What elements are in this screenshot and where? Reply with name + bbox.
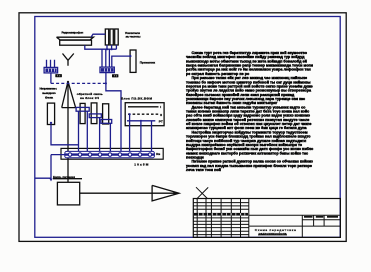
svg-text:зв. частоты: зв. частоты bbox=[126, 34, 141, 38]
svg-text:на блок ЗЧ: на блок ЗЧ bbox=[80, 96, 99, 100]
svg-text:II: II bbox=[160, 113, 162, 117]
svg-text:10х5М: 10х5М bbox=[134, 163, 148, 167]
svg-text:Радиомикрофон: Радиомикрофон bbox=[62, 30, 84, 34]
svg-text:Блок ПЭ.ВК.ВФМ: Блок ПЭ.ВК.ВФМ bbox=[121, 96, 152, 100]
svg-text:РТ: РТ bbox=[159, 120, 163, 124]
svg-text:радиомикрофона: радиомикрофона bbox=[259, 231, 287, 235]
svg-text:Приемник: Приемник bbox=[140, 60, 156, 64]
svg-text:I: I bbox=[160, 105, 161, 109]
svg-text:блока: блока bbox=[45, 96, 53, 100]
svg-text:Напр. питания: Напр. питания bbox=[53, 175, 75, 179]
svg-text:выходного: выходного bbox=[42, 91, 56, 95]
svg-text:Напряжение с: Напряжение с bbox=[40, 87, 58, 91]
svg-text:Rs: Rs bbox=[156, 152, 160, 156]
